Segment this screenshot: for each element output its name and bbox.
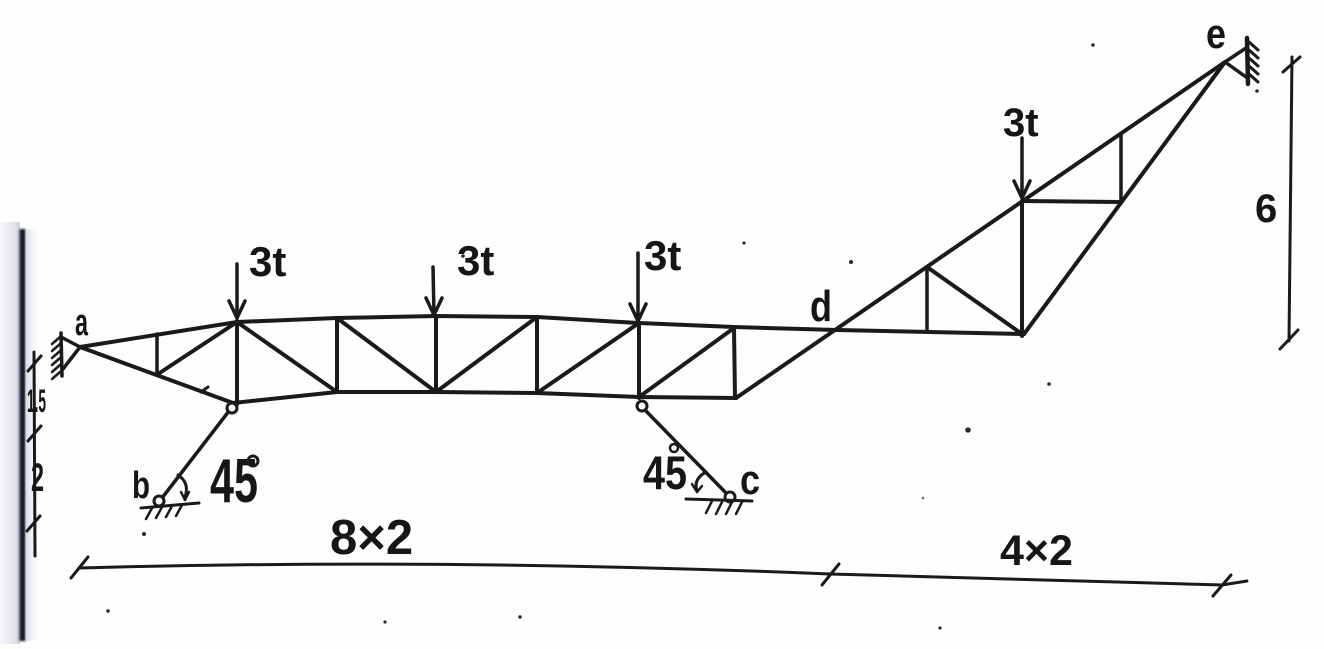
inclined upper chord b6-d-e (736, 62, 1225, 398)
scan page-edge inner wash (26, 229, 41, 641)
right dimension tick top (1283, 57, 1300, 72)
noise dot 12 (1255, 89, 1259, 93)
svg-text:b: b (132, 465, 150, 507)
vertical web V0 (155, 334, 159, 375)
bottom dimension tick left (71, 557, 88, 578)
node circle b (154, 496, 164, 506)
vertical web V3 under load 2 (434, 316, 438, 392)
bottom dimension line (79, 564, 1247, 585)
noise dot 7 (1091, 43, 1095, 47)
noise dot 1 (849, 260, 853, 264)
svg-text:d: d (810, 282, 832, 331)
noise dot 8 (461, 254, 465, 258)
noise dot 10 (938, 626, 941, 629)
node circle B1 (227, 403, 237, 413)
support c 45-degree arc (696, 472, 706, 491)
svg-text:6: 6 (1255, 187, 1277, 231)
support c ground hatching (706, 501, 742, 514)
noise dot 4 (142, 532, 146, 536)
svg-text:c: c (740, 456, 760, 503)
inclined lower chord corner-e (1024, 62, 1225, 334)
svg-text:8×2: 8×2 (330, 511, 413, 565)
inclined web vertical W3 (1020, 201, 1024, 336)
left dimension tick middle (28, 426, 41, 441)
support e hatching (1249, 42, 1258, 82)
noise dot 5 (106, 609, 110, 613)
left dimension tick top (28, 356, 41, 371)
support c ground line (686, 499, 752, 501)
inclined web horizontal W4 (1022, 201, 1121, 202)
vertical web V4 (535, 317, 539, 393)
support a hatching (52, 337, 60, 379)
node circle c (725, 492, 735, 502)
degree mark left 45 (248, 456, 258, 466)
inclined web vertical W5 (1119, 134, 1123, 202)
support a triangle (61, 337, 80, 369)
svg-text:3t: 3t (644, 232, 681, 279)
inclined web diagonal W2 (927, 267, 1022, 334)
stray mark on bottom chord (201, 387, 208, 392)
left dimension tick bottom (27, 516, 40, 531)
strut to support c (645, 410, 727, 494)
support e triangle (1225, 48, 1246, 77)
bottom dimension tick right (1213, 575, 1231, 596)
load arrow 4 shaft (1020, 138, 1024, 198)
vertical web V1 under load 1 (235, 321, 239, 404)
support a wall (61, 333, 62, 376)
node circle B5 (637, 401, 647, 411)
diagonal web D3 (436, 317, 537, 392)
support b ground line (141, 503, 199, 508)
svg-text:a: a (75, 302, 89, 344)
load arrow 4 head (1014, 181, 1030, 198)
svg-text:3t: 3t (1003, 101, 1039, 145)
svg-text:1.5: 1.5 (27, 383, 46, 419)
vertical web V5 under load 3 (637, 323, 641, 398)
support c arc arrowhead (692, 484, 702, 492)
left dimension line (34, 352, 35, 556)
svg-text:3t: 3t (457, 237, 494, 284)
support b ground hatching (146, 505, 182, 519)
bottom dimension tick middle (822, 564, 839, 585)
inclined web vertical W1 (925, 267, 929, 331)
svg-text:45: 45 (643, 446, 687, 499)
degree mark right 45 (670, 444, 678, 452)
right dimension line (1289, 57, 1292, 341)
bottom chord a-b1-b6 polyline (80, 347, 736, 403)
support b 45-degree arc (178, 475, 186, 497)
svg-text:2: 2 (31, 456, 44, 500)
noise dot 2 (965, 427, 971, 432)
diagonal web D0 (158, 322, 237, 374)
load arrow 3 shaft (636, 253, 640, 321)
support b arc arrowhead (181, 492, 189, 500)
load arrow 1 shaft (235, 264, 239, 318)
noise dot 9 (742, 241, 745, 244)
svg-text:e: e (1206, 10, 1226, 57)
load arrow 2 shaft (433, 267, 434, 315)
noise dot 3 (1047, 382, 1051, 386)
scan page-edge light strip (0, 222, 20, 644)
noise dot 2b (922, 497, 925, 500)
vertical web V2 (335, 318, 339, 392)
noise dot 11 (383, 620, 386, 623)
diagonal web D2 (337, 318, 436, 392)
load arrow 2 head (426, 298, 442, 315)
right dimension tick bottom (1280, 330, 1298, 349)
diagonal web D4 (537, 323, 639, 393)
support e wall (1247, 38, 1248, 84)
top chord a-to-end polyline (80, 316, 1024, 347)
diagonal web D1 (237, 322, 337, 392)
svg-text:3t: 3t (249, 238, 286, 285)
diagonal web D5 (639, 328, 734, 397)
svg-text:4×2: 4×2 (1000, 527, 1073, 575)
strut to support b (162, 411, 229, 498)
vertical web V6 (734, 327, 735, 398)
load arrow 1 head (229, 301, 245, 318)
scan page-edge dark bar (20, 229, 26, 641)
noise dot 6 (518, 615, 522, 619)
load arrow 3 head (630, 304, 646, 321)
